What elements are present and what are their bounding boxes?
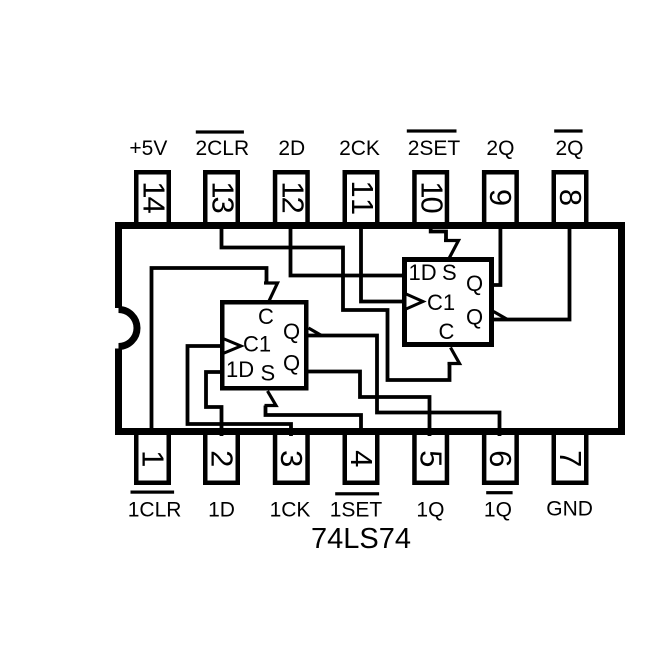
wire FF2 Qbar to pin8 2Qbar [493, 227, 570, 320]
svg-text:C1: C1 [427, 290, 455, 315]
svg-text:Q: Q [466, 305, 483, 330]
svg-text:1D: 1D [409, 260, 437, 285]
svg-text:11: 11 [345, 180, 380, 217]
svg-text:2D: 2D [278, 137, 305, 160]
FF1 clock chevron [223, 339, 241, 354]
svg-text:1Q: 1Q [416, 499, 444, 522]
notch [115, 308, 137, 349]
svg-text:C1: C1 [243, 332, 271, 357]
wire pin4 1SET to FF1 S [266, 406, 362, 432]
svg-text:2: 2 [204, 450, 239, 466]
svg-text:6: 6 [483, 450, 518, 466]
label 1Qbar pin6 [484, 491, 513, 521]
wire pin13 2CLR to FF2 C [222, 227, 450, 380]
flip-flop U1a box [222, 302, 306, 388]
IC body U1 74LS74 [119, 226, 622, 432]
pennant FF2 S input [444, 241, 459, 259]
svg-text:Q: Q [283, 351, 300, 376]
svg-text:1CLR: 1CLR [128, 499, 182, 522]
FF2 clock chevron [405, 294, 423, 310]
wire pin10 2SET to FF2 S [431, 227, 446, 241]
svg-text:1Q: 1Q [484, 499, 512, 522]
pin 5 box [414, 432, 449, 483]
label 2SET pin10 [407, 129, 461, 160]
pennant FF1 C input [264, 283, 278, 301]
svg-text:1SET: 1SET [330, 499, 383, 522]
label 2Qbar pin8 [554, 129, 583, 160]
svg-text:74LS74: 74LS74 [311, 523, 411, 555]
svg-text:2CLR: 2CLR [195, 137, 249, 160]
svg-text:C: C [439, 319, 455, 344]
svg-text:+5V: +5V [129, 137, 167, 160]
svg-text:C: C [258, 304, 274, 329]
pin 1 box [135, 432, 170, 483]
svg-text:14: 14 [137, 181, 172, 213]
pin 2 box [204, 432, 239, 483]
svg-text:1: 1 [135, 450, 170, 466]
pin 14 box [136, 172, 171, 225]
wire FF1 Q to pin5 1Q [307, 372, 430, 437]
pennant FF2 Qbar output [494, 312, 508, 320]
svg-text:1D: 1D [208, 499, 235, 522]
flip-flop U1b box [405, 260, 492, 345]
wire pin2 1D to FF1 D [206, 372, 222, 436]
label 1SET pin4 [330, 492, 383, 521]
svg-text:S: S [261, 361, 276, 386]
svg-text:12: 12 [275, 181, 310, 212]
label 2CLR pin13 [195, 130, 249, 160]
svg-text:2CK: 2CK [339, 137, 380, 160]
wire pin3 1CK to FF1 C1 [188, 346, 292, 436]
pin 11 box [345, 172, 380, 225]
label 1CLR pin1 [128, 491, 182, 522]
svg-text:1D: 1D [226, 357, 254, 382]
wire FF1 Qbar to pin6 1Qbar [309, 336, 500, 437]
pennant FF2 C input [448, 348, 460, 364]
pennant FF1 S input [265, 391, 277, 406]
svg-text:5: 5 [414, 450, 449, 466]
pin 9 box [483, 172, 518, 225]
svg-text:Q: Q [283, 319, 300, 344]
pin 7 box [553, 432, 588, 483]
svg-text:2SET: 2SET [408, 137, 461, 160]
svg-text:2Q: 2Q [555, 137, 583, 160]
pin 6 box [483, 432, 518, 483]
pennant FF1 Qbar output [309, 328, 322, 336]
pin 3 box [274, 432, 309, 483]
wire pin1 1CLR to FF1 C [152, 268, 267, 431]
pin 12 box [275, 172, 310, 225]
pin 10 box [414, 172, 449, 225]
wire FF2 Q to pin9 2Q [492, 227, 500, 285]
wire pin11 2CK to FF2 C1 [361, 227, 403, 302]
svg-text:8: 8 [553, 189, 588, 205]
svg-text:7: 7 [553, 450, 588, 466]
svg-text:2Q: 2Q [486, 137, 514, 160]
svg-text:9: 9 [483, 189, 518, 205]
svg-text:10: 10 [415, 181, 450, 213]
pin 8 box [553, 172, 588, 225]
pin 4 box [344, 432, 379, 483]
svg-text:13: 13 [206, 181, 241, 212]
svg-text:GND: GND [546, 498, 593, 521]
svg-text:Q: Q [466, 271, 483, 296]
svg-text:4: 4 [344, 450, 379, 467]
pin 13 box [205, 172, 240, 225]
svg-text:S: S [442, 260, 457, 285]
svg-text:3: 3 [274, 450, 309, 466]
svg-text:1CK: 1CK [270, 499, 311, 522]
wire pin12 2D to FF2 D [291, 227, 404, 276]
